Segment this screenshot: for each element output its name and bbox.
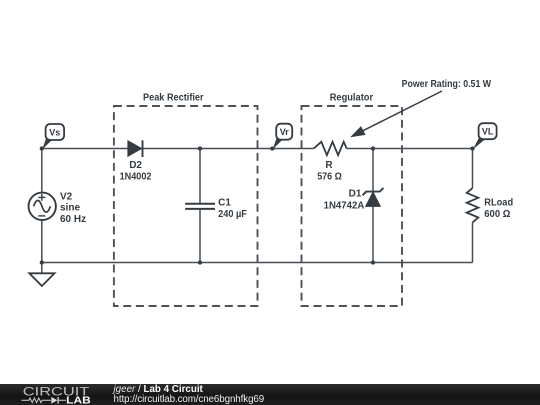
CircuitLab logo (0, 384, 100, 405)
svg-text:D2: D2 (129, 160, 142, 171)
svg-text:Power Rating: 0.51 W: Power Rating: 0.51 W (402, 79, 492, 90)
junction D1 bottom (371, 260, 375, 264)
wire C1 top lead (199, 149, 201, 204)
junction D1 top (371, 146, 375, 150)
svg-text:C1: C1 (218, 198, 231, 209)
svg-text:60 Hz: 60 Hz (60, 214, 86, 225)
svg-text:1N4002: 1N4002 (120, 171, 152, 182)
svg-text:VL: VL (482, 127, 494, 137)
svg-text:600 Ω: 600 Ω (484, 209, 510, 220)
svg-text:1N4742A: 1N4742A (324, 200, 365, 211)
resistor R (314, 142, 347, 155)
wire RLoad bottom lead (472, 222, 474, 262)
resistor RLoad (467, 188, 479, 222)
wire left vertical below V2 (41, 221, 43, 263)
svg-text:RLoad: RLoad (484, 198, 513, 209)
wire top rail right: R to VL node (347, 148, 473, 150)
junction ground node (40, 260, 44, 264)
footer bar (0, 384, 540, 405)
svg-text:sine: sine (60, 203, 80, 214)
wire bottom rail (42, 262, 473, 264)
annotation arrow Power Rating (350, 91, 442, 137)
junction C1 top (198, 146, 202, 150)
annotation box Peak Rectifier (114, 93, 258, 306)
node flag Vs (42, 124, 64, 149)
svg-text:576 Ω: 576 Ω (317, 171, 342, 182)
footer title (114, 384, 203, 395)
svg-text:LAB: LAB (66, 395, 91, 405)
svg-text:240 µF: 240 µF (218, 209, 247, 220)
wire D1 bottom lead (372, 207, 374, 263)
svg-text:D1: D1 (349, 189, 362, 200)
voltage source V2 (29, 193, 56, 220)
junction node VL (470, 146, 474, 150)
wire C1 bottom lead (199, 210, 201, 263)
svg-text:Vr: Vr (280, 127, 290, 137)
wire top rail middle: D2 cathode through Vr to R (143, 148, 314, 150)
wire left vertical above V2 (41, 149, 43, 193)
footer url (114, 394, 265, 405)
ground (29, 273, 54, 286)
svg-text:Peak Rectifier: Peak Rectifier (143, 93, 204, 104)
capacitor C1 (185, 204, 215, 209)
annotation box Regulator (302, 93, 403, 306)
svg-text:R: R (325, 160, 333, 171)
node flag VL (473, 123, 497, 149)
wire D1 top lead (372, 149, 374, 192)
junction C1 bottom (198, 260, 202, 264)
junction node Vs (V2 top) (40, 146, 44, 150)
wire ground stub (41, 263, 43, 274)
svg-text:Regulator: Regulator (330, 93, 373, 104)
junction node Vr (270, 146, 274, 150)
svg-text:V2: V2 (60, 191, 73, 202)
diode D2 (128, 140, 143, 157)
wire RLoad top lead (472, 149, 474, 189)
svg-text:Vs: Vs (49, 128, 60, 138)
zener diode D1 (363, 188, 384, 207)
node flag Vr (273, 124, 292, 150)
wire top rail left: Vs node to D2 anode (42, 148, 128, 150)
